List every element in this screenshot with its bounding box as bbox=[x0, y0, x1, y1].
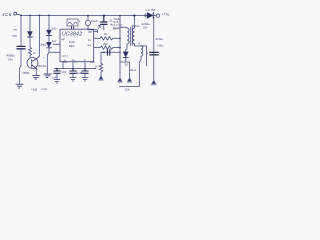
capacitor C3 plates bbox=[101, 16, 108, 25]
wire C2 through bbox=[88, 16, 97, 33]
diode D3 bbox=[123, 52, 128, 57]
current arrow bbox=[98, 25, 100, 29]
svg-text:20u1: 20u1 bbox=[130, 68, 137, 72]
wire top bus bbox=[21, 14, 148, 16]
svg-text:4P: 4P bbox=[62, 38, 65, 42]
svg-text:mv: mv bbox=[13, 27, 17, 31]
wire rail2 upper bbox=[29, 15, 31, 31]
svg-text:2k2: 2k2 bbox=[103, 42, 108, 46]
node gnd bus 2 bbox=[72, 68, 74, 70]
wire output rail down bbox=[153, 17, 155, 80]
wire rail3 bbox=[39, 15, 41, 56]
wire rail4 mid bbox=[48, 36, 50, 43]
svg-text:out: out bbox=[88, 43, 92, 47]
wire pin2 out bbox=[94, 47, 100, 49]
wire D3 down bbox=[125, 57, 127, 62]
transformer T1 primary bbox=[127, 28, 129, 44]
svg-text:220u/: 220u/ bbox=[156, 37, 164, 41]
wire stub to IC pin bbox=[53, 43, 60, 45]
wire C4 down bbox=[56, 74, 58, 80]
wire transformer rail bbox=[119, 16, 121, 62]
wire gnd branch bbox=[47, 52, 49, 73]
wire Q1 emitter down bbox=[35, 68, 37, 75]
diode D1 bbox=[28, 32, 33, 37]
svg-text:1u4: 1u4 bbox=[52, 75, 57, 79]
capacitor C6 plates bbox=[82, 69, 88, 74]
capacitor C5 plates bbox=[70, 69, 76, 74]
wire bottom link bbox=[120, 61, 130, 63]
wire C5 down bbox=[72, 74, 74, 78]
svg-text:2Sv: 2Sv bbox=[143, 25, 148, 29]
wire snubber line bbox=[101, 51, 120, 53]
wire rail1 lower bbox=[20, 49, 22, 84]
node bus x88 bbox=[87, 15, 89, 17]
svg-text:16v: 16v bbox=[8, 57, 13, 61]
wire input to bus bbox=[17, 14, 21, 15]
ground G3 bbox=[54, 80, 60, 83]
wire IC bottom pin a bbox=[62, 62, 64, 69]
capacitor C4 plates bbox=[54, 69, 60, 74]
op-amp U1 box UC3842 bbox=[60, 29, 94, 62]
wire R8 down bbox=[100, 52, 102, 63]
svg-text:8P: 8P bbox=[89, 30, 92, 34]
node gnd bus 1 bbox=[56, 68, 58, 70]
ground G9 bbox=[44, 74, 51, 78]
zener Z1 bbox=[47, 30, 52, 35]
svg-text:2w2: 2w2 bbox=[41, 43, 47, 47]
svg-text:63v: 63v bbox=[63, 60, 68, 64]
capacitor C9 plates bbox=[150, 52, 159, 55]
wire R7 to rail bbox=[113, 47, 120, 49]
svg-text:10uF: 10uF bbox=[91, 19, 98, 23]
wire C3 down bbox=[103, 25, 105, 30]
svg-text:+: + bbox=[147, 52, 149, 56]
node snubber left bbox=[103, 52, 105, 54]
ground G4 bbox=[70, 78, 76, 81]
node bus x30 bbox=[29, 15, 31, 17]
transformer aux winding bbox=[141, 46, 143, 57]
resistor R2 zigzag bbox=[28, 47, 31, 58]
svg-text:cmc: cmc bbox=[42, 87, 48, 91]
diode D2 anode tick bbox=[144, 14, 146, 17]
wire IC bottom pin b bbox=[72, 62, 74, 69]
node bus x134 bbox=[133, 15, 135, 17]
wire primary bottom to diode bbox=[126, 44, 127, 52]
svg-text:1k: 1k bbox=[104, 32, 108, 36]
wire rail4 upper bbox=[48, 15, 50, 29]
wire sense down b bbox=[129, 62, 131, 78]
wire R8 to gnd bbox=[100, 72, 102, 76]
svg-text:ou: ou bbox=[74, 60, 78, 64]
svg-text:+|uz: +|uz bbox=[31, 87, 37, 91]
transformer T1 secondary bbox=[133, 28, 135, 44]
node bus x104 bbox=[103, 15, 105, 17]
svg-text:380u0: 380u0 bbox=[132, 24, 140, 28]
svg-text:+U (5A: +U (5A bbox=[146, 8, 157, 12]
node bus x21 bbox=[20, 15, 22, 17]
svg-text:4C6: 4C6 bbox=[2, 12, 12, 17]
terminal input circle bbox=[14, 12, 17, 15]
svg-text:N551: N551 bbox=[23, 71, 31, 75]
wire sense down a bbox=[119, 62, 121, 78]
wire R6 to rail bbox=[113, 37, 120, 39]
transistor Q1 internals bbox=[32, 59, 37, 69]
svg-text:7v5: 7v5 bbox=[12, 34, 17, 38]
ground G6 arrow bbox=[151, 81, 156, 85]
svg-text:uF+: uF+ bbox=[90, 60, 95, 64]
wire pin6 out bbox=[94, 37, 100, 39]
node r snub bbox=[119, 52, 121, 54]
wire Q1 collector up bbox=[37, 56, 40, 58]
capacitor C2 circle bbox=[85, 20, 90, 25]
wire rail2 mid bbox=[29, 37, 31, 47]
fuse box scribble bbox=[67, 19, 78, 26]
capacitor C1 plates bbox=[17, 46, 25, 48]
svg-text:UC3842: UC3842 bbox=[62, 31, 82, 37]
zener Z2 bbox=[47, 42, 52, 47]
wire ground bus bbox=[55, 68, 97, 70]
node gnd bus 3 bbox=[84, 68, 86, 70]
ground G1 bbox=[16, 84, 23, 88]
wire diode to output terminal bbox=[154, 15, 157, 17]
node bus x39 bbox=[39, 15, 41, 17]
resistor R7 zigzag bbox=[100, 46, 113, 49]
ground G2 bbox=[33, 76, 40, 80]
wire C6 down bbox=[84, 74, 86, 78]
wire secondary bottom right bbox=[135, 44, 147, 66]
ground G5 arrow bbox=[118, 78, 122, 82]
svg-text:+16u: +16u bbox=[157, 43, 164, 47]
svg-text:10v: 10v bbox=[52, 27, 57, 31]
svg-text:0u48: 0u48 bbox=[76, 71, 83, 75]
transformer T1 core bbox=[130, 27, 132, 46]
ground G7 arrow bbox=[99, 76, 103, 80]
node bus x120 bbox=[119, 15, 121, 17]
svg-text:10n: 10n bbox=[113, 26, 118, 30]
svg-text:Ru/5: Ru/5 bbox=[69, 40, 75, 44]
wire primary top bbox=[120, 26, 127, 28]
svg-text:GT I: GT I bbox=[63, 54, 68, 58]
fuse box ticks bbox=[72, 26, 74, 29]
svg-text:12k: 12k bbox=[125, 88, 130, 92]
svg-text:Fu: Fu bbox=[88, 38, 92, 42]
resistor R6 zigzag bbox=[100, 37, 113, 40]
terminal output circle bbox=[156, 14, 159, 17]
capacitor C10 plates bbox=[107, 49, 109, 55]
ground G5b arrow bbox=[127, 78, 131, 82]
node r gate1 bbox=[119, 38, 121, 40]
svg-text:+: + bbox=[43, 55, 45, 59]
wire rail1 down bbox=[20, 15, 22, 46]
wire secondary up bbox=[133, 16, 135, 28]
svg-text:REF.: REF. bbox=[69, 44, 75, 48]
svg-text:30: 30 bbox=[125, 63, 129, 67]
svg-text:+: + bbox=[79, 20, 81, 24]
node r gate2 bbox=[119, 47, 121, 49]
resistor R8 zigzag bbox=[99, 63, 103, 72]
transistor Q1 circle bbox=[27, 58, 38, 69]
svg-text:+7?u.: +7?u. bbox=[161, 12, 170, 16]
ground G8 bbox=[82, 78, 88, 81]
wire rail4 to IC bbox=[49, 48, 60, 53]
svg-text:143: 143 bbox=[62, 70, 67, 74]
svg-text:BC10: BC10 bbox=[39, 64, 47, 68]
wire IC bottom pin c bbox=[84, 62, 86, 69]
node bus x50 bbox=[48, 15, 50, 17]
diode D2 bbox=[147, 13, 153, 19]
wire aux down loop bbox=[120, 56, 142, 86]
wire pin7 stub bbox=[94, 30, 98, 32]
